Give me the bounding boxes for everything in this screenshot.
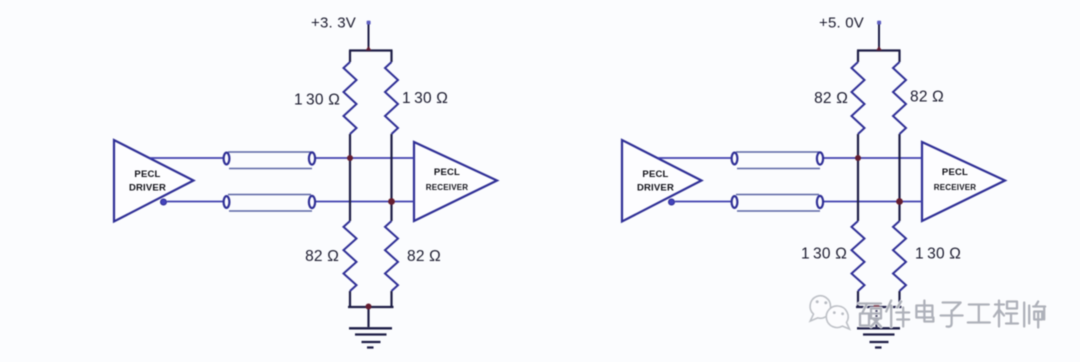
svg-text:82 Ω: 82 Ω — [814, 90, 848, 107]
svg-text:PECL: PECL — [942, 167, 968, 178]
svg-text:RECEIVER: RECEIVER — [426, 183, 469, 192]
svg-text:1 30 Ω: 1 30 Ω — [915, 246, 961, 263]
svg-text:RECEIVER: RECEIVER — [934, 183, 977, 192]
svg-text:82 Ω: 82 Ω — [407, 248, 441, 265]
svg-text:1 30 Ω: 1 30 Ω — [801, 246, 847, 263]
svg-text:+3. 3V: +3. 3V — [311, 15, 356, 32]
svg-text:PECL: PECL — [434, 167, 460, 178]
svg-text:1 30 Ω: 1 30 Ω — [402, 90, 448, 107]
svg-text:DRIVER: DRIVER — [129, 183, 166, 194]
svg-text:PECL: PECL — [642, 169, 668, 180]
svg-text:+5. 0V: +5. 0V — [819, 15, 864, 32]
svg-text:1 30 Ω: 1 30 Ω — [294, 92, 340, 109]
svg-text:DRIVER: DRIVER — [637, 183, 674, 194]
svg-text:82 Ω: 82 Ω — [305, 248, 339, 265]
svg-text:82 Ω: 82 Ω — [910, 89, 944, 106]
svg-text:PECL: PECL — [134, 169, 160, 180]
